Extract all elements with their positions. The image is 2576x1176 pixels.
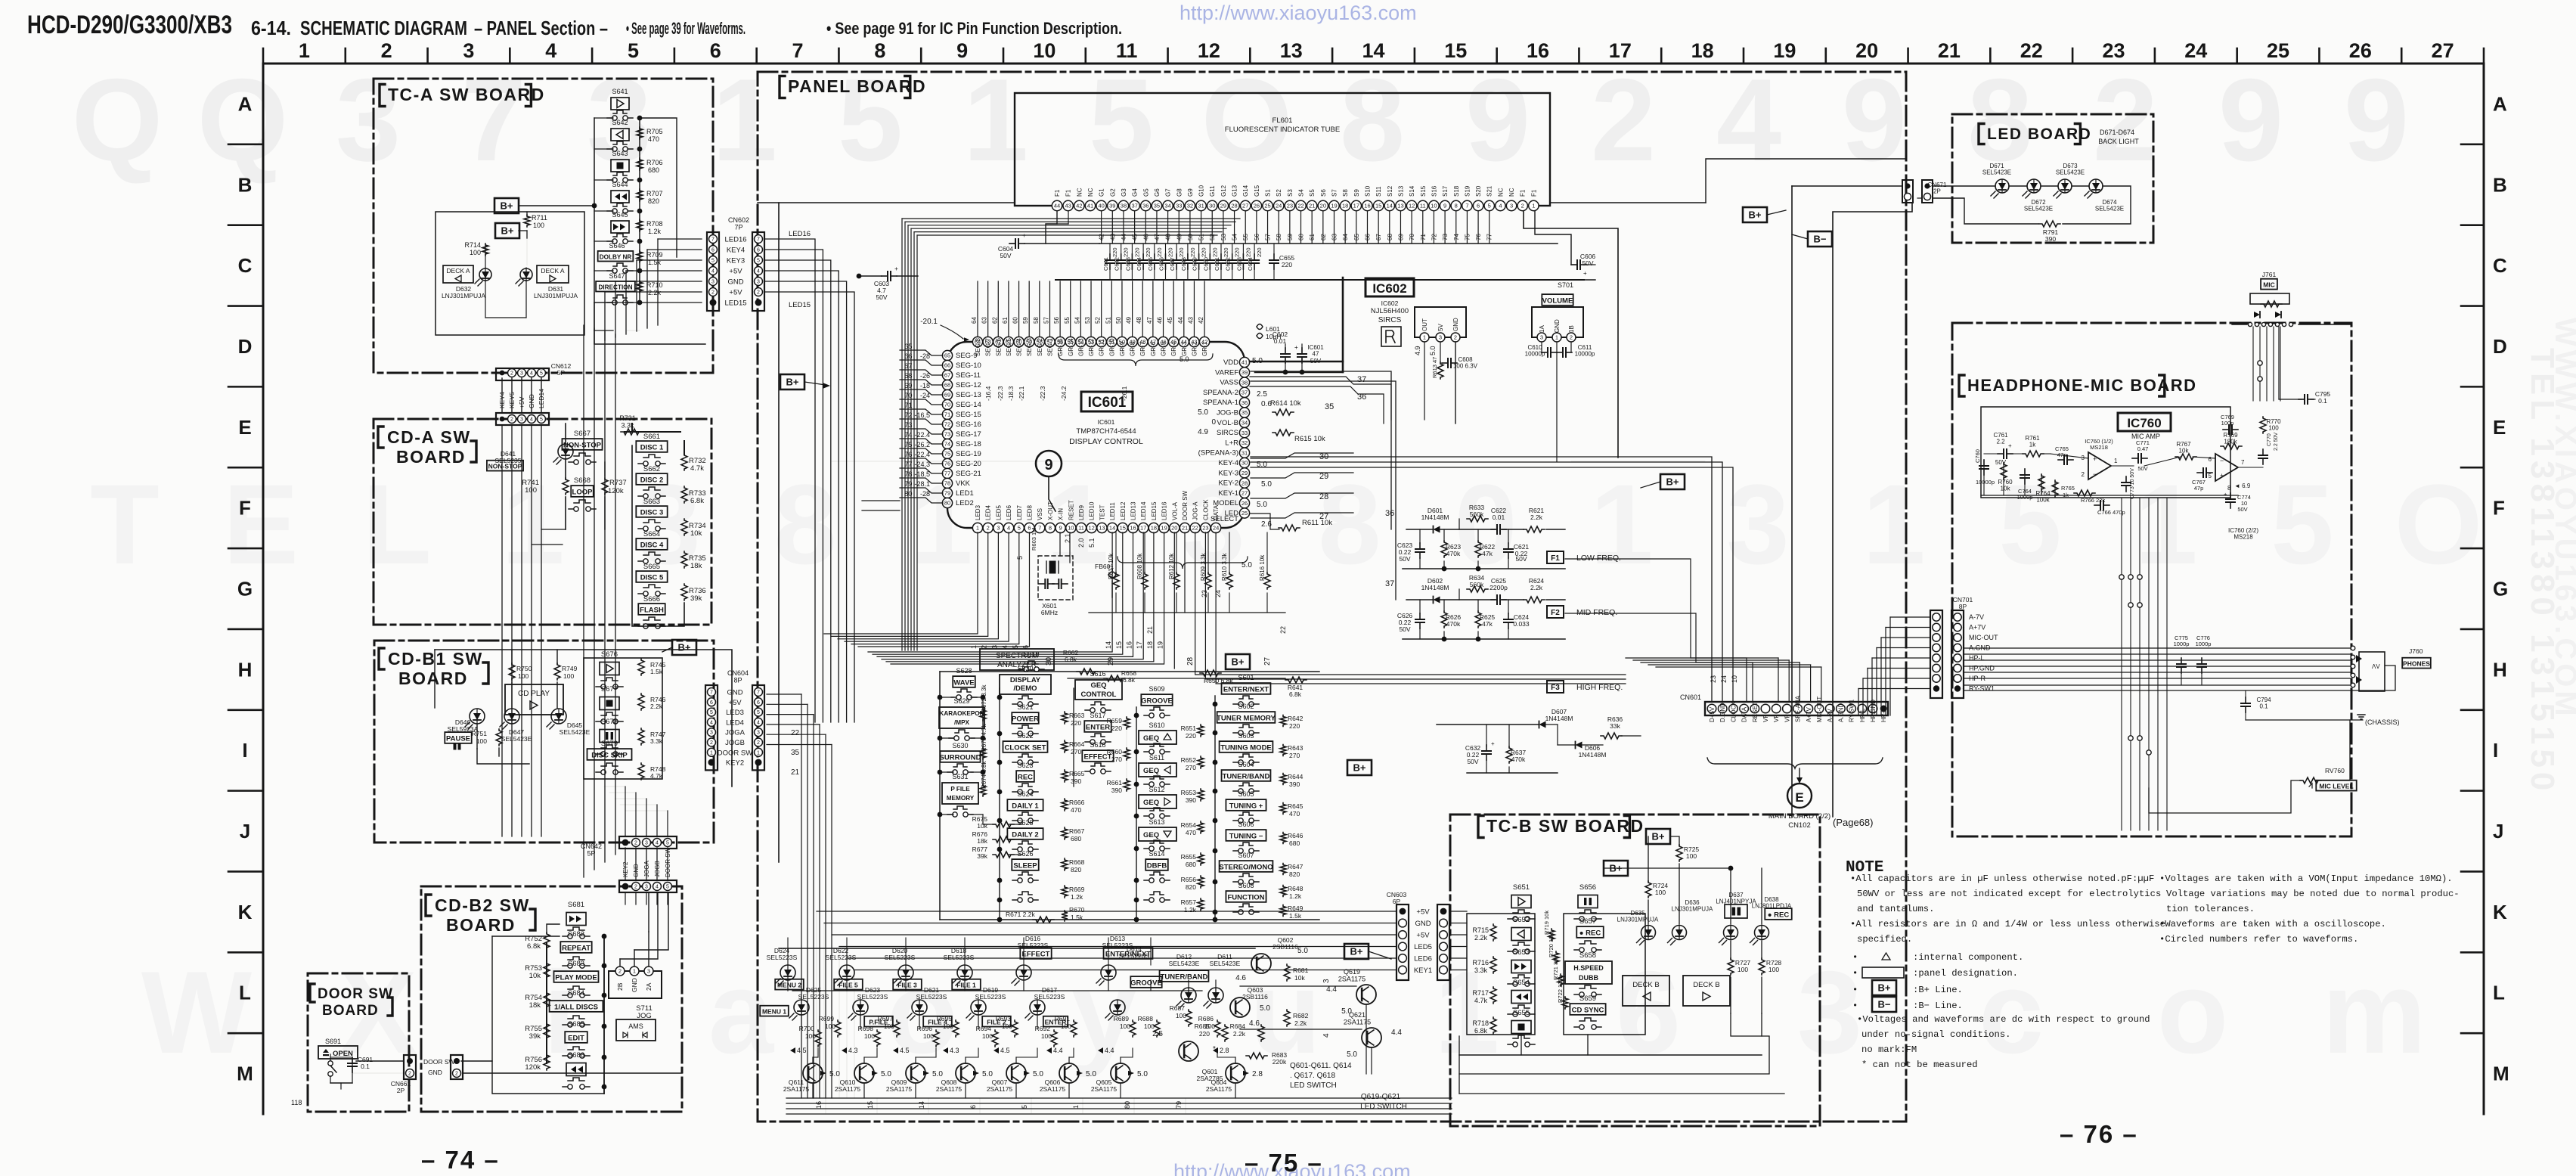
svg-text:DOOR SW: DOOR SW bbox=[1182, 490, 1189, 520]
svg-text:71: 71 bbox=[944, 411, 950, 418]
svg-text:21: 21 bbox=[1309, 203, 1315, 209]
pin FL601-15 S11 bbox=[1373, 200, 1383, 210]
svg-text:25: 25 bbox=[1264, 203, 1270, 209]
svg-text:7: 7 bbox=[757, 237, 760, 243]
resistor R769 bbox=[2221, 443, 2242, 449]
resistor R665 bbox=[1062, 770, 1068, 782]
svg-text:5: 5 bbox=[757, 259, 760, 264]
svg-text:42: 42 bbox=[1198, 317, 1204, 324]
svg-text:R644: R644 bbox=[1288, 773, 1303, 780]
wire CN612 bbox=[521, 378, 522, 413]
pin IC601-73 SEG left bbox=[942, 429, 952, 439]
svg-text:100: 100 bbox=[1686, 852, 1697, 860]
wire staircase CN602 bbox=[765, 239, 815, 722]
svg-text:29: 29 bbox=[1220, 203, 1226, 209]
svg-text:36: 36 bbox=[1142, 203, 1149, 209]
LED D637 bbox=[1724, 926, 1738, 940]
resistor R735 bbox=[681, 551, 687, 568]
svg-text:100: 100 bbox=[1061, 1022, 1071, 1030]
svg-text:LED6: LED6 bbox=[1006, 504, 1012, 520]
resistor R671 bbox=[1033, 917, 1054, 923]
svg-text:S605: S605 bbox=[1238, 790, 1254, 798]
svg-text:– 75 –: – 75 – bbox=[1245, 1149, 1323, 1176]
svg-text::internal component.: :internal component. bbox=[1913, 952, 2023, 963]
pin FL601-25 S1 bbox=[1263, 200, 1273, 210]
wire FL601 F1 left bbox=[1046, 211, 1057, 244]
wire colA buses bbox=[939, 672, 941, 920]
board outline PANEL BOARD bbox=[758, 72, 1906, 1122]
svg-text:1N4148M: 1N4148M bbox=[1421, 584, 1449, 591]
svg-text:G6: G6 bbox=[1154, 188, 1161, 197]
pin IC601-78 SEG left bbox=[942, 478, 952, 488]
svg-text:FILE 5: FILE 5 bbox=[839, 981, 858, 988]
svg-text:1: 1 bbox=[2114, 458, 2118, 464]
svg-text:S606: S606 bbox=[1238, 821, 1254, 828]
svg-text:SEL5423E: SEL5423E bbox=[1210, 960, 1241, 967]
board outline TC-B SW BOARD bbox=[1450, 815, 1820, 1126]
svg-text:2.2k: 2.2k bbox=[1294, 1019, 1307, 1027]
svg-text:0.1: 0.1 bbox=[2318, 397, 2327, 405]
svg-text:680: 680 bbox=[1071, 835, 1081, 842]
svg-text:70: 70 bbox=[944, 402, 950, 408]
block AMS bbox=[616, 1019, 656, 1041]
svg-text:TC-B SW BOARD: TC-B SW BOARD bbox=[1486, 816, 1644, 836]
svg-text:R667: R667 bbox=[1069, 827, 1085, 835]
svg-text:18: 18 bbox=[1691, 39, 1714, 62]
wire hp lower stubs bbox=[2128, 736, 2133, 740]
pin IC601-20 VOL-A bbox=[1170, 523, 1180, 532]
svg-text:22: 22 bbox=[791, 729, 800, 737]
svg-text:15: 15 bbox=[1375, 203, 1381, 209]
svg-text:S11: S11 bbox=[1375, 186, 1382, 197]
net +5V bbox=[1400, 908, 1406, 915]
svg-text:59: 59 bbox=[1287, 234, 1294, 240]
board outline DOOR SW BOARD bbox=[308, 973, 409, 1112]
svg-text:JOG-A: JOG-A bbox=[1192, 501, 1199, 520]
wire IC601 bottom fan pins 1-6 bbox=[824, 532, 978, 634]
svg-text:R706: R706 bbox=[646, 159, 663, 166]
svg-text:21: 21 bbox=[1938, 39, 1961, 62]
svg-text:T: T bbox=[90, 461, 160, 588]
B+ tag CD-B1 bbox=[672, 640, 696, 655]
net +5V bbox=[709, 267, 718, 275]
svg-text:SEL5223S: SEL5223S bbox=[767, 954, 798, 961]
wire TC-A stack loop bbox=[640, 118, 677, 257]
svg-text:R689: R689 bbox=[1114, 1015, 1130, 1022]
diode D606 bbox=[1576, 742, 1582, 749]
svg-text:SEL5223S: SEL5223S bbox=[975, 993, 1006, 1001]
svg-text:75: 75 bbox=[1464, 234, 1471, 240]
svg-text:6.8k: 6.8k bbox=[1065, 656, 1077, 663]
wire colB bus bbox=[999, 688, 1000, 920]
svg-text:R749: R749 bbox=[562, 665, 578, 672]
svg-text:– 74 –: – 74 – bbox=[421, 1146, 500, 1174]
svg-text:CN102: CN102 bbox=[1788, 821, 1811, 830]
resistor R716 bbox=[1490, 957, 1496, 973]
svg-text:SEG-11: SEG-11 bbox=[956, 371, 981, 380]
svg-text:6: 6 bbox=[757, 248, 760, 253]
svg-text:I: I bbox=[2493, 739, 2498, 762]
net +5V bbox=[1399, 931, 1407, 939]
svg-text:GEQ: GEQ bbox=[1143, 734, 1159, 743]
svg-text:2: 2 bbox=[634, 841, 637, 846]
svg-text:5.0: 5.0 bbox=[1297, 947, 1308, 955]
svg-text:S619: S619 bbox=[1023, 650, 1039, 658]
svg-text:4.4: 4.4 bbox=[1105, 1047, 1114, 1054]
svg-text:DECK B: DECK B bbox=[1693, 981, 1719, 989]
svg-text:71: 71 bbox=[1420, 234, 1427, 240]
svg-text:68: 68 bbox=[1387, 234, 1393, 240]
svg-text:7: 7 bbox=[461, 54, 526, 185]
LED D673 bbox=[2058, 179, 2072, 193]
svg-text:820: 820 bbox=[1186, 883, 1196, 891]
svg-text:S614: S614 bbox=[1149, 850, 1164, 858]
svg-text:-22.1: -22.1 bbox=[1018, 386, 1025, 401]
pin FL601-41 NC bbox=[1085, 200, 1095, 210]
LED D613 ENTER/NEXT bbox=[1101, 965, 1116, 980]
capacitor C646 bbox=[1165, 254, 1167, 260]
svg-text:OPEN: OPEN bbox=[333, 1050, 353, 1058]
pin FL601-34 G7 bbox=[1163, 200, 1173, 210]
connector right CD-B1 CN bbox=[625, 892, 626, 904]
pin IC601-37 SPEANA-2 bbox=[1239, 387, 1249, 397]
svg-text:(SPEANA-3): (SPEANA-3) bbox=[1198, 449, 1238, 458]
svg-text:2: 2 bbox=[987, 525, 990, 532]
svg-text:50V: 50V bbox=[1582, 259, 1593, 267]
block IC602 receiver bbox=[1415, 307, 1466, 337]
svg-text:5.0: 5.0 bbox=[1261, 480, 1272, 489]
svg-text:LED13: LED13 bbox=[1130, 501, 1137, 520]
pin FL601-18 S8 bbox=[1340, 200, 1350, 210]
svg-text:5: 5 bbox=[628, 39, 639, 62]
svg-text:S661: S661 bbox=[643, 433, 660, 441]
svg-text:DATA: DATA bbox=[1741, 706, 1748, 722]
resistor R724 bbox=[1645, 881, 1651, 898]
svg-text:S681: S681 bbox=[568, 901, 584, 909]
svg-text:R705: R705 bbox=[646, 128, 663, 135]
svg-text:BOARD: BOARD bbox=[322, 1003, 379, 1019]
panel label PAUSE bbox=[445, 732, 471, 743]
svg-text:68: 68 bbox=[944, 382, 950, 389]
svg-text:LED15: LED15 bbox=[789, 301, 811, 309]
svg-text:23: 23 bbox=[1710, 675, 1717, 683]
svg-text:7: 7 bbox=[792, 39, 804, 62]
svg-text:• See page 39 for Waveforms.: • See page 39 for Waveforms. bbox=[626, 19, 746, 38]
svg-text:MODEL: MODEL bbox=[1213, 499, 1238, 507]
svg-text:GR-2: GR-2 bbox=[1191, 341, 1198, 356]
board title DOOR SW BOARD bbox=[310, 984, 315, 1002]
resistor R706 bbox=[637, 158, 643, 170]
svg-text:LED10: LED10 bbox=[1089, 501, 1096, 520]
svg-text:3: 3 bbox=[645, 885, 648, 890]
svg-text:KARAOKEPON: KARAOKEPON bbox=[939, 710, 984, 717]
svg-text:10: 10 bbox=[1731, 675, 1738, 683]
transistor Q604 2SA1175 bbox=[1226, 1063, 1245, 1083]
svg-text:•All resistors are in Ω and 1/: •All resistors are in Ω and 1/4W or less… bbox=[1850, 919, 2165, 929]
resistor R750 bbox=[509, 663, 515, 680]
svg-text:220: 220 bbox=[1156, 247, 1163, 257]
resistor R692 bbox=[1051, 1030, 1057, 1047]
wire FL601 F1 right bbox=[1524, 211, 1618, 458]
svg-text:220: 220 bbox=[1071, 719, 1081, 727]
svg-text:R660: R660 bbox=[1107, 748, 1123, 756]
svg-text:S654: S654 bbox=[1513, 979, 1530, 987]
svg-text:4.3: 4.3 bbox=[950, 1047, 959, 1054]
svg-text:S652: S652 bbox=[1513, 916, 1530, 924]
svg-text:13: 13 bbox=[1397, 203, 1403, 209]
svg-text:R751: R751 bbox=[472, 730, 488, 737]
net A-7V bbox=[1933, 613, 1940, 621]
svg-text:LNJ301MPUJA: LNJ301MPUJA bbox=[1617, 917, 1659, 923]
capacitor C603 bbox=[882, 275, 888, 277]
svg-text:100: 100 bbox=[982, 1032, 993, 1040]
svg-text:1N4148M: 1N4148M bbox=[1421, 514, 1449, 521]
op-amp IC760 2/2 bbox=[2215, 454, 2238, 481]
svg-text:1/ALL DISCS: 1/ALL DISCS bbox=[554, 1004, 598, 1012]
svg-text:5: 5 bbox=[1016, 556, 1024, 560]
svg-text:LED3: LED3 bbox=[726, 709, 744, 717]
svg-text:R664: R664 bbox=[1069, 740, 1085, 748]
resistor R760 bbox=[2001, 463, 2007, 479]
B+ tag TC-A 1 bbox=[494, 198, 519, 213]
svg-text:G7: G7 bbox=[1165, 188, 1172, 197]
svg-text:220: 220 bbox=[1111, 725, 1122, 732]
svg-text:R720 18k: R720 18k bbox=[1548, 933, 1555, 957]
svg-text:470: 470 bbox=[1289, 810, 1300, 818]
svg-text:−: − bbox=[2093, 470, 2097, 478]
svg-text:560k: 560k bbox=[1470, 510, 1484, 518]
wire panel to TC-B horizontals bbox=[817, 911, 1396, 912]
resistor R766 bbox=[2074, 490, 2095, 496]
svg-text:R685: R685 bbox=[1195, 1022, 1211, 1030]
pin FL601-39 G2 bbox=[1108, 200, 1118, 210]
svg-text:R656: R656 bbox=[1181, 876, 1197, 883]
pin IC601-36 SPEANA-1 bbox=[1239, 398, 1249, 408]
svg-text:MID FREQ.: MID FREQ. bbox=[1576, 608, 1617, 617]
svg-text:14: 14 bbox=[1387, 203, 1393, 209]
svg-text:S622: S622 bbox=[1017, 732, 1033, 740]
svg-text:2: 2 bbox=[408, 1072, 411, 1077]
svg-text:Q: Q bbox=[72, 54, 163, 185]
svg-text:SEL5223S: SEL5223S bbox=[916, 993, 947, 1001]
pin IC601-72 SEG left bbox=[942, 419, 952, 429]
resistor R657 bbox=[1198, 898, 1204, 911]
svg-text:390: 390 bbox=[1186, 796, 1196, 804]
resistor R653 bbox=[1198, 789, 1204, 801]
capacitor C774 bbox=[2230, 493, 2231, 499]
svg-text:2.2k: 2.2k bbox=[1233, 1030, 1246, 1038]
svg-text:2.2k: 2.2k bbox=[648, 289, 662, 296]
svg-text:S12: S12 bbox=[1387, 185, 1393, 197]
svg-text:S667: S667 bbox=[574, 430, 591, 438]
svg-text:560k: 560k bbox=[1470, 581, 1484, 588]
svg-text:26: 26 bbox=[1242, 500, 1248, 507]
resistor R672 bbox=[980, 709, 986, 721]
svg-text:77: 77 bbox=[944, 470, 950, 477]
svg-text:R674 6.8k: R674 6.8k bbox=[981, 761, 987, 789]
svg-text:5: 5 bbox=[2271, 461, 2333, 588]
svg-text:5: 5 bbox=[540, 371, 543, 377]
resistor R654 bbox=[1198, 821, 1204, 833]
svg-text:* can not be measured: * can not be measured bbox=[1861, 1060, 1978, 1070]
switch colB extra contacts bbox=[1018, 892, 1032, 895]
capacitor C left bbox=[1419, 543, 1421, 549]
svg-text:GR-12: GR-12 bbox=[1088, 338, 1095, 356]
svg-text:DOOR SW: DOOR SW bbox=[665, 847, 671, 877]
svg-text:NON-STOP: NON-STOP bbox=[563, 442, 602, 450]
svg-text:17: 17 bbox=[1140, 525, 1146, 532]
svg-text:I: I bbox=[242, 739, 247, 762]
svg-text:PANEL BOARD: PANEL BOARD bbox=[788, 76, 926, 96]
wire colE bus bbox=[1214, 696, 1216, 920]
svg-text:47p: 47p bbox=[2194, 485, 2204, 492]
svg-text:5P: 5P bbox=[557, 369, 566, 377]
svg-text:2.2 50V: 2.2 50V bbox=[2274, 433, 2279, 451]
svg-text:5: 5 bbox=[1488, 203, 1491, 209]
svg-text:52: 52 bbox=[1209, 234, 1216, 240]
svg-text:100: 100 bbox=[476, 737, 487, 745]
svg-text:2.5: 2.5 bbox=[1257, 390, 1267, 399]
svg-text:820: 820 bbox=[648, 197, 659, 205]
resistor R668 bbox=[1062, 858, 1068, 870]
svg-text:2SB1116: 2SB1116 bbox=[1242, 993, 1268, 1001]
svg-text:S651: S651 bbox=[1513, 883, 1530, 892]
svg-text:10k: 10k bbox=[2179, 448, 2190, 455]
svg-text:43: 43 bbox=[1065, 203, 1071, 209]
svg-text:DISPLAY: DISPLAY bbox=[1010, 676, 1041, 684]
svg-text:4: 4 bbox=[1007, 525, 1010, 532]
svg-text:ΛV: ΛV bbox=[2372, 663, 2380, 670]
svg-text:+: + bbox=[1491, 740, 1495, 747]
svg-text:27: 27 bbox=[2432, 39, 2454, 62]
LED D645 bbox=[551, 709, 566, 724]
pin IC601-66 SEG left bbox=[942, 360, 952, 370]
svg-text:SEG-14: SEG-14 bbox=[956, 401, 981, 409]
svg-text:S626: S626 bbox=[1017, 850, 1033, 858]
svg-text:35: 35 bbox=[791, 749, 800, 757]
svg-text:9: 9 bbox=[1842, 54, 1907, 185]
svg-text:5.0: 5.0 bbox=[1429, 346, 1437, 355]
svg-text:0.1: 0.1 bbox=[361, 1063, 370, 1070]
resistor R694 bbox=[992, 1030, 998, 1047]
svg-text:CLOCK: CLOCK bbox=[1730, 701, 1737, 722]
svg-text:G: G bbox=[2493, 578, 2508, 600]
svg-text:S8: S8 bbox=[1342, 189, 1349, 197]
svg-text:GR-9: GR-9 bbox=[1119, 341, 1126, 356]
svg-text:ENTER/NEXT: ENTER/NEXT bbox=[1223, 686, 1269, 694]
svg-text:S646: S646 bbox=[609, 242, 625, 250]
pin IC601-76 SEG left bbox=[942, 458, 952, 468]
wire hp internal bbox=[1984, 453, 2001, 455]
svg-text:3: 3 bbox=[647, 968, 650, 975]
svg-text:18k: 18k bbox=[977, 837, 987, 845]
LED D623 P.FILE bbox=[853, 1000, 868, 1015]
board title CD-A SW BOARD bbox=[378, 427, 383, 448]
resistor R656 bbox=[1198, 876, 1204, 888]
svg-text:RV760: RV760 bbox=[2325, 767, 2345, 774]
pin FL601-27 G14 bbox=[1241, 200, 1251, 210]
svg-text:IC602: IC602 bbox=[1381, 299, 1399, 307]
svg-text:4: 4 bbox=[545, 39, 556, 62]
pin FL601-23 S3 bbox=[1285, 200, 1294, 210]
svg-text:MIC-OUT: MIC-OUT bbox=[1816, 697, 1823, 722]
LED D617 ENTER bbox=[1030, 1000, 1045, 1015]
svg-text:4.7k: 4.7k bbox=[690, 464, 704, 473]
op-amp IC760 box label bbox=[2118, 413, 2171, 431]
resistor R650 bbox=[1200, 670, 1221, 676]
net LED4 bbox=[708, 718, 716, 726]
svg-text:CD-B1 SW: CD-B1 SW bbox=[388, 649, 483, 669]
svg-text:11: 11 bbox=[1078, 525, 1084, 532]
wire hp feed horizontals bbox=[1962, 616, 1964, 618]
resistor R684 bbox=[1258, 1025, 1264, 1041]
transistor Q603 2SB1116 bbox=[1230, 998, 1250, 1017]
capacitor C653 bbox=[1242, 254, 1244, 260]
svg-text:-18.3: -18.3 bbox=[1007, 386, 1015, 401]
pin FL601-33 G8 bbox=[1174, 200, 1184, 210]
svg-text:LED16: LED16 bbox=[724, 236, 746, 244]
pin IC601-60 SEG-4 bbox=[1014, 337, 1024, 346]
resistor R613 bbox=[1437, 362, 1443, 379]
svg-text:6.8k: 6.8k bbox=[1474, 1027, 1488, 1035]
svg-text:S608: S608 bbox=[1238, 882, 1254, 889]
svg-text:S668: S668 bbox=[574, 476, 591, 485]
svg-text:POWER: POWER bbox=[1012, 715, 1039, 724]
svg-text:CN642: CN642 bbox=[581, 842, 602, 850]
svg-text:24: 24 bbox=[1214, 590, 1222, 597]
svg-text:S664: S664 bbox=[643, 530, 660, 538]
label IC602 bbox=[1365, 278, 1414, 296]
svg-text:10000p: 10000p bbox=[1976, 479, 1995, 486]
svg-text:5: 5 bbox=[1018, 525, 1021, 532]
svg-text:17: 17 bbox=[1353, 203, 1359, 209]
svg-text:2: 2 bbox=[2082, 471, 2085, 478]
svg-text:DISC 4: DISC 4 bbox=[640, 541, 664, 550]
resistor R682 bbox=[1284, 1010, 1290, 1026]
svg-text:1k: 1k bbox=[2029, 442, 2036, 448]
svg-text:1.2k: 1.2k bbox=[1289, 892, 1302, 900]
svg-text:61: 61 bbox=[1002, 317, 1009, 324]
svg-text:R661: R661 bbox=[1107, 779, 1123, 787]
resistors R719-R722 bbox=[1548, 929, 1555, 941]
svg-text:S17: S17 bbox=[1442, 185, 1449, 197]
pin CN601 HP.GND bbox=[1868, 704, 1877, 713]
resistor R709 bbox=[637, 250, 643, 262]
svg-text:R709: R709 bbox=[646, 251, 663, 259]
pin IC601-23 CLOCK bbox=[1201, 523, 1211, 532]
svg-text:D: D bbox=[238, 335, 253, 358]
svg-text:C643: C643 bbox=[1124, 257, 1131, 271]
resistor R611 bbox=[1279, 525, 1300, 531]
svg-text:22: 22 bbox=[2020, 39, 2043, 62]
svg-text:C641: C641 bbox=[1102, 257, 1109, 271]
resistor R708 bbox=[637, 219, 643, 231]
svg-text:G8: G8 bbox=[1176, 188, 1183, 197]
resistor R699 bbox=[835, 1020, 841, 1037]
pin IC601-80 SEG left bbox=[942, 498, 952, 507]
svg-text:-28: -28 bbox=[920, 352, 930, 360]
capacitor C645 bbox=[1154, 254, 1155, 260]
wire B+ drop bbox=[1791, 186, 1793, 817]
svg-text:470: 470 bbox=[1071, 806, 1081, 814]
svg-text:FUNCTION: FUNCTION bbox=[1227, 894, 1264, 902]
svg-text:GR-1: GR-1 bbox=[1201, 341, 1208, 356]
svg-text:GND: GND bbox=[1554, 319, 1561, 333]
svg-text:GR-8: GR-8 bbox=[1130, 341, 1136, 356]
svg-text:C642: C642 bbox=[1114, 257, 1121, 271]
svg-text:8: 8 bbox=[1340, 54, 1405, 185]
svg-text:6MHz: 6MHz bbox=[1041, 609, 1058, 616]
